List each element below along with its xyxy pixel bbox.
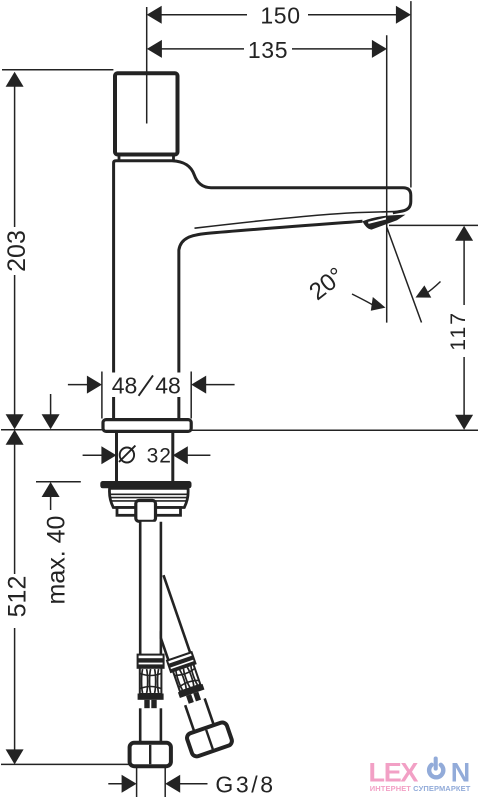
svg-text:ИНТЕРНЕТ СУПЕРМАРКЕТ: ИНТЕРНЕТ СУПЕРМАРКЕТ xyxy=(370,784,471,793)
svg-text:max. 40: max. 40 xyxy=(43,516,71,605)
faucet handle knob xyxy=(115,73,178,154)
faucet body and spout fill xyxy=(114,161,411,420)
dimension G3/8 arrows xyxy=(108,783,207,785)
max40 lower reference line xyxy=(36,481,81,483)
straight hose braided section xyxy=(140,668,162,694)
dimension 150 line xyxy=(161,14,397,16)
svg-text:48: 48 xyxy=(112,373,138,399)
straight hose crimp squares xyxy=(144,700,149,709)
mounting nut bottom tab xyxy=(136,501,156,522)
tailpiece right line xyxy=(171,431,174,481)
mounting nut lower tier xyxy=(117,508,181,516)
dimension G3/8 extension lines xyxy=(137,767,166,798)
20 degree leader to slanted line xyxy=(426,282,441,294)
20 degree slanted line xyxy=(387,227,422,323)
mounting nut flange bar xyxy=(100,481,191,488)
handle neck left xyxy=(118,155,121,161)
spout thick underside outline xyxy=(179,221,363,419)
dimension 48/48 white gap xyxy=(110,373,183,398)
20 degree leader to vertical line xyxy=(352,294,373,305)
spout inner thin underside line xyxy=(195,211,404,228)
dimension 512 line xyxy=(14,444,16,751)
svg-text:G3/8: G3/8 xyxy=(215,772,275,798)
extension line spout tip xyxy=(410,1,412,187)
right reference line outlet level xyxy=(389,224,478,226)
handle neck right xyxy=(172,155,175,161)
left reference line hose end xyxy=(1,763,130,765)
tailpiece left line xyxy=(115,431,118,481)
svg-text:135: 135 xyxy=(248,37,288,63)
label diameter 32 xyxy=(119,446,135,463)
svg-text:203: 203 xyxy=(3,230,31,272)
LEXON logo xyxy=(369,757,471,793)
straight hose body xyxy=(142,522,160,655)
right reference line mounting surface xyxy=(192,429,479,431)
faucet body and spout outline xyxy=(114,161,411,420)
svg-text:LEX: LEX xyxy=(369,757,419,787)
svg-text:N: N xyxy=(451,757,471,787)
dimension 117 line xyxy=(463,240,465,416)
mounting nut upper tier xyxy=(109,488,188,507)
diagonal hose (rear) xyxy=(134,572,233,758)
straight hose lower collar xyxy=(138,694,164,700)
dimension 135 line xyxy=(161,48,373,50)
straight hose lower body xyxy=(142,708,160,743)
dimension max40 lower arrow xyxy=(50,496,52,510)
dimension 48/48 arrows xyxy=(68,384,235,386)
extension line spout outlet xyxy=(386,35,388,322)
svg-text:48: 48 xyxy=(155,373,181,399)
svg-text:20°: 20° xyxy=(304,262,349,306)
straight hose hex nut xyxy=(130,743,171,766)
dimension max40 upper arrow xyxy=(50,394,52,415)
svg-text:150: 150 xyxy=(260,3,300,29)
logo power icon xyxy=(429,759,443,778)
dimension diameter32 arrows xyxy=(83,454,211,456)
svg-text:32: 32 xyxy=(147,444,172,467)
left reference line mounting surface xyxy=(1,429,102,431)
spout outlet aerator wedge xyxy=(363,215,406,230)
left reference line knob top xyxy=(2,69,113,71)
base plate xyxy=(103,420,191,432)
straight hose upper collar xyxy=(138,655,164,668)
centerline through handle xyxy=(146,7,148,124)
svg-text:512: 512 xyxy=(4,576,32,618)
dimension 48/48 extension lines xyxy=(102,372,191,419)
svg-text:117: 117 xyxy=(446,311,470,351)
dimension 203 line xyxy=(14,86,16,416)
